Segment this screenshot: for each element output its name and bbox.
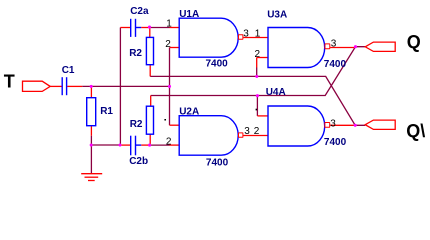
svg-text:2: 2 (166, 136, 172, 147)
svg-text:U3A: U3A (267, 9, 287, 20)
svg-text:7400: 7400 (324, 137, 347, 148)
svg-text:U1A: U1A (179, 9, 199, 20)
svg-text:U4A: U4A (266, 87, 286, 98)
svg-text:R2: R2 (129, 48, 142, 59)
svg-text:Q: Q (407, 32, 421, 52)
svg-text:7400: 7400 (206, 59, 229, 70)
svg-text:1: 1 (255, 29, 261, 40)
svg-text:T: T (4, 72, 15, 92)
svg-text:3: 3 (330, 118, 336, 129)
svg-text:3: 3 (331, 39, 337, 50)
svg-text:1: 1 (166, 18, 172, 29)
svg-text:R1: R1 (100, 106, 113, 117)
svg-text:7400: 7400 (324, 59, 347, 70)
svg-text:U2A: U2A (179, 107, 199, 118)
svg-text:C2a: C2a (130, 6, 149, 17)
svg-text:R2: R2 (130, 119, 143, 130)
svg-text:3: 3 (244, 126, 250, 137)
svg-text:2: 2 (254, 126, 260, 137)
svg-text:7400: 7400 (206, 158, 229, 169)
svg-text:3: 3 (243, 29, 249, 40)
svg-text:C1: C1 (62, 65, 75, 76)
svg-text:2: 2 (255, 49, 261, 60)
svg-text:2: 2 (165, 39, 171, 50)
svg-text:Q\: Q\ (406, 121, 425, 141)
svg-text:C2b: C2b (129, 156, 148, 167)
